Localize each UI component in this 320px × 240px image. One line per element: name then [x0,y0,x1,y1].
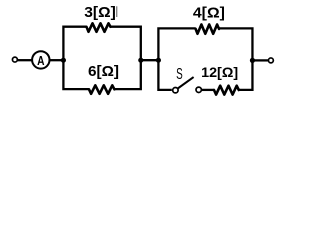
switch S contact left [173,88,178,93]
switch S contact right [196,87,201,92]
switch S blade [178,77,194,88]
svg-text:6[Ω]: 6[Ω] [88,63,119,80]
ammeter A1 [32,51,49,68]
svg-text:4[Ω]: 4[Ω] [193,5,225,22]
terminal right [268,58,273,63]
node 2 junction dot [138,58,143,63]
wire terminal to ammeter [18,59,32,61]
resistor 4ohm [196,25,219,34]
wire node2 to node3 [141,59,159,61]
resistor 3ohm [87,23,111,32]
resistor 12ohm [214,86,239,95]
terminal left [12,57,17,62]
wire loop1 right+top-right [111,27,141,89]
wire loop2 left side [158,28,195,89]
node 1 junction dot [61,58,66,63]
wire ammeter to node 1 [50,59,64,61]
node 3 junction dot [156,58,161,63]
svg-text:3[Ω]: 3[Ω] [84,4,116,21]
wire loop2 right side [219,28,252,89]
svg-text:S: S [176,66,183,83]
artifact stroke after 3[ohm] [116,6,118,17]
wire loop1 left+top-left [63,27,89,89]
resistor 6ohm [89,85,114,94]
node 4 junction dot [250,58,255,63]
wire switch to 12ohm [202,89,214,91]
svg-text:A: A [37,53,45,68]
svg-text:12[Ω]: 12[Ω] [201,64,238,80]
wire node4 to terminal right [252,59,268,61]
